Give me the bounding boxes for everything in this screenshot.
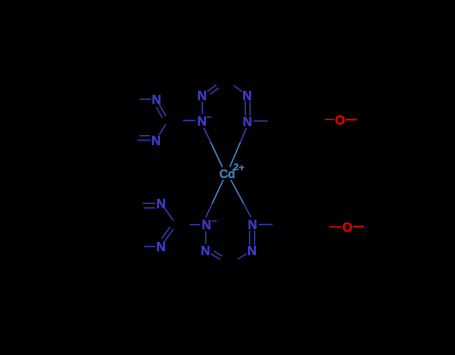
svg-text:N: N xyxy=(248,217,257,232)
svg-text:N: N xyxy=(202,217,211,232)
svg-text:O: O xyxy=(335,112,345,127)
svg-text:N: N xyxy=(151,133,160,148)
double bond N3r=C2b (half) xyxy=(164,229,173,242)
double bond N4'=N5' xyxy=(249,231,251,246)
svg-text:N: N xyxy=(197,113,206,128)
svg-text:N: N xyxy=(156,196,165,211)
bond C2t-N1f (half) xyxy=(183,120,195,122)
bond N1r-C2b (half) xyxy=(165,208,174,220)
bond N1f-N2f xyxy=(201,102,203,115)
bond N3t-C2t (half) xyxy=(159,124,166,135)
svg-text:N: N xyxy=(201,243,210,258)
bond N3r-C4r (half) xyxy=(144,246,156,248)
bond N1'-N2' xyxy=(205,231,207,244)
double bond N3t=C4t (half) xyxy=(138,139,151,141)
charge minus on N1 xyxy=(207,116,212,118)
svg-text:N: N xyxy=(247,243,256,258)
coordination bond N5f-Cd xyxy=(240,128,246,142)
bond C3'-N4' (half) xyxy=(238,254,247,259)
svg-text:N: N xyxy=(152,92,161,107)
svg-text:O: O xyxy=(342,220,352,235)
bond O-methyl bottom (half) xyxy=(353,226,364,228)
coordination bond N5'-Cd xyxy=(244,204,251,218)
svg-text:+: + xyxy=(239,163,245,174)
charge minus on N1' xyxy=(212,220,217,222)
svg-text:N: N xyxy=(242,88,251,103)
bond aryl-O top (half) xyxy=(325,118,334,120)
bond O-methyl top (half) xyxy=(346,119,357,121)
bond aryl-O bottom (half) xyxy=(329,226,342,228)
bond N1t-C6t (half) xyxy=(140,98,151,100)
double bond N1r=C6r (half) xyxy=(143,202,156,204)
coordination bond N1'-Cd xyxy=(206,204,212,218)
double bond N2'=C3' (half) xyxy=(211,254,220,260)
svg-text:N: N xyxy=(197,88,206,103)
bond N5f-aryl (half) xyxy=(254,120,268,122)
svg-text:N: N xyxy=(243,114,252,129)
coordination bond N1f-Cd xyxy=(204,128,211,142)
svg-text:N: N xyxy=(156,239,165,254)
bond C2b-N1' (half) xyxy=(190,224,200,226)
bond N5'-aryl (half) xyxy=(259,224,273,226)
double bond N2f=C3f (half) xyxy=(207,85,216,92)
bond C3f-N4f (half) xyxy=(234,85,242,91)
double bond N4f=N5f xyxy=(244,101,246,116)
double bond N1t=C2t (half) xyxy=(159,104,166,116)
